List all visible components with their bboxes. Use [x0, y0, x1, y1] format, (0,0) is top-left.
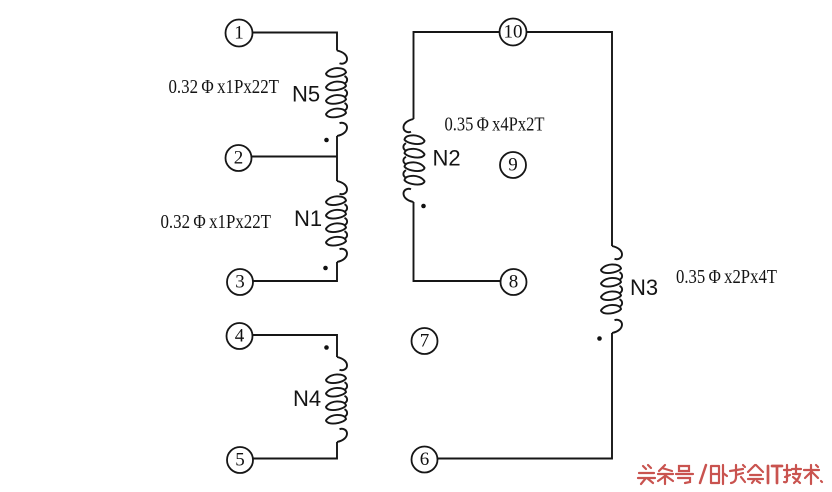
winding N5: [326, 51, 347, 137]
watermark red text: toutiao hao / wolonghui IT jishu: [638, 465, 822, 484]
svg-text:N5: N5: [292, 82, 320, 107]
svg-text:4: 4: [235, 326, 245, 347]
svg-text:8: 8: [509, 272, 519, 293]
terminal 1: [226, 20, 253, 47]
svg-text:N1: N1: [294, 206, 322, 231]
terminal 5: [227, 447, 253, 473]
wire winding N2 to terminal 8: [414, 202, 501, 281]
polarity dot winding N4: [324, 345, 329, 350]
wire terminal 10 to winding N2: [414, 32, 500, 119]
svg-text:N4: N4: [293, 386, 321, 411]
terminal 9: [500, 152, 526, 178]
wire terminal 2 to junction: [252, 156, 337, 158]
winding N1: [326, 181, 347, 262]
polarity dot winding N5: [324, 138, 329, 143]
wire terminal 1 to winding N5: [253, 33, 337, 51]
svg-text:10: 10: [504, 22, 523, 43]
wire terminal 10 to winding N3: [527, 32, 613, 246]
terminal 7: [412, 328, 438, 354]
svg-text:0.32 Φ x1Px22T: 0.32 Φ x1Px22T: [169, 77, 280, 98]
terminal 2: [226, 145, 252, 171]
wire winding N5 to node 2 junction: [336, 136, 338, 157]
wire junction to winding N1: [336, 157, 338, 181]
winding N3: [601, 246, 622, 333]
svg-text:0.35 Φ x4Px2T: 0.35 Φ x4Px2T: [445, 115, 545, 136]
polarity dot winding N2: [421, 204, 426, 209]
svg-text:5: 5: [235, 450, 245, 471]
svg-text:0.32 Φ x1Px22T: 0.32 Φ x1Px22T: [161, 212, 272, 233]
polarity dot winding N3: [597, 336, 602, 341]
svg-text:N2: N2: [433, 146, 461, 171]
winding N2: [403, 119, 424, 202]
svg-text:9: 9: [508, 155, 518, 176]
terminal 4: [227, 323, 253, 349]
terminal 8: [501, 269, 527, 295]
wire winding N3 to terminal 6: [438, 333, 612, 459]
terminal 6: [412, 447, 438, 473]
svg-text:1: 1: [234, 23, 244, 44]
svg-text:2: 2: [234, 148, 244, 169]
svg-text:N3: N3: [630, 275, 658, 300]
wire terminal 4 to winding N4: [253, 335, 337, 357]
terminal 3: [227, 269, 253, 295]
polarity dot winding N1: [323, 266, 328, 271]
svg-text:7: 7: [420, 331, 430, 352]
svg-text:0.35 Φ x2Px4T: 0.35 Φ x2Px4T: [676, 267, 777, 288]
wire winding N1 to terminal 3: [253, 262, 337, 281]
wire winding N4 to terminal 5: [253, 442, 337, 459]
winding N4: [326, 357, 347, 442]
svg-text:6: 6: [420, 449, 430, 470]
svg-text:3: 3: [235, 272, 245, 293]
terminal 10: [500, 19, 527, 46]
